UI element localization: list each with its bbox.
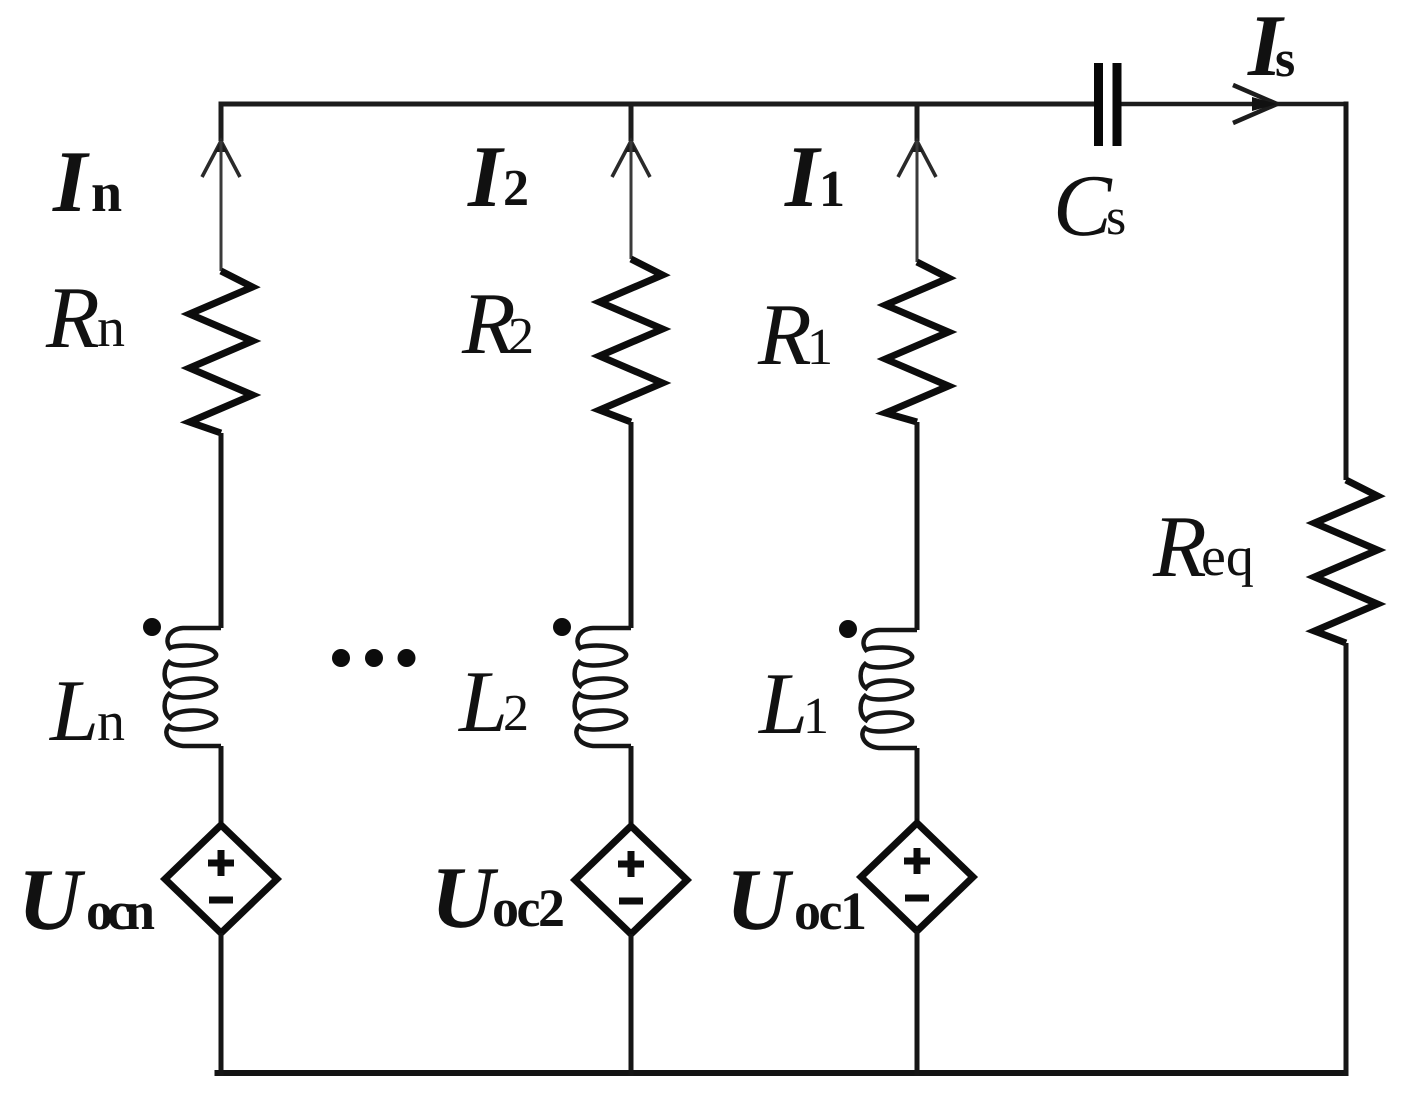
minus sign inside Uoc2 bbox=[619, 898, 643, 905]
bottom rail wire bbox=[215, 1070, 1349, 1076]
resistor Rn bbox=[190, 271, 253, 433]
svg-text:n: n bbox=[97, 297, 125, 359]
current arrow I1 (upward) bbox=[898, 140, 936, 177]
current arrow In (upward) bbox=[202, 140, 240, 177]
wire: arrow shaft down to resistor Rn bbox=[220, 141, 223, 271]
coupling dot of Ln bbox=[143, 618, 161, 636]
dependent source Uoc1 (diamond) bbox=[861, 823, 973, 931]
wire: top stub of branch 1 bbox=[915, 102, 920, 142]
minus sign inside Uoc1 bbox=[905, 895, 929, 902]
svg-text:U: U bbox=[431, 850, 499, 947]
top rail wire: left node to capacitor Cs bbox=[221, 102, 1094, 107]
wire: R1 to L1 bbox=[915, 422, 920, 630]
wire: L1 to source Uoc1 bbox=[915, 748, 920, 823]
svg-text:I: I bbox=[52, 134, 90, 231]
wire: Ln to source Uocn bbox=[219, 746, 224, 825]
wire: top-right corner down to Req bbox=[1344, 102, 1349, 481]
inductor L1 bbox=[861, 630, 917, 748]
svg-text:U: U bbox=[18, 852, 86, 949]
dependent source Uoc2 (diamond) bbox=[575, 826, 687, 934]
label Ln bbox=[48, 663, 125, 760]
svg-text:R: R bbox=[1152, 499, 1207, 596]
label I1 bbox=[784, 129, 845, 226]
wire: R2 to L2 bbox=[629, 422, 634, 628]
label R2 bbox=[461, 276, 534, 373]
svg-text:I: I bbox=[784, 129, 822, 226]
svg-text:oc2: oc2 bbox=[492, 878, 563, 938]
label Uoc1 bbox=[726, 852, 865, 949]
svg-text:n: n bbox=[97, 691, 125, 753]
capacitor Cs plates bbox=[1099, 63, 1118, 146]
svg-text:n: n bbox=[91, 162, 122, 224]
svg-text:2: 2 bbox=[508, 308, 534, 365]
wire: arrow shaft down to resistor R2 bbox=[630, 141, 633, 259]
current arrow Is (rightward on top rail) bbox=[1233, 85, 1277, 123]
label Is bbox=[1247, 0, 1295, 95]
svg-text:s: s bbox=[1106, 189, 1126, 246]
label L2 bbox=[457, 654, 529, 751]
label L1 bbox=[757, 656, 829, 753]
svg-text:oc1: oc1 bbox=[794, 881, 865, 941]
wire: Req to bottom-right corner bbox=[1344, 643, 1349, 1076]
top rail wire: capacitor Cs to top-right corner bbox=[1121, 102, 1349, 107]
ellipsis dots between branch n and branch 2 bbox=[332, 649, 416, 667]
svg-text:R: R bbox=[757, 287, 812, 384]
coupling dot of L1 bbox=[839, 620, 857, 638]
label Req bbox=[1152, 499, 1254, 596]
svg-text:C: C bbox=[1053, 158, 1113, 255]
resistor R2 bbox=[600, 259, 663, 422]
plus sign inside Uoc2 bbox=[618, 851, 644, 877]
label In bbox=[52, 134, 122, 231]
wire: Uoc2 to bottom rail bbox=[629, 934, 634, 1076]
svg-text:I: I bbox=[467, 129, 505, 226]
resistor R1 bbox=[886, 262, 949, 422]
svg-text:eq: eq bbox=[1201, 526, 1254, 588]
svg-text:L: L bbox=[757, 656, 808, 753]
svg-text:2: 2 bbox=[503, 160, 529, 217]
plus sign inside Uoc1 bbox=[904, 848, 930, 874]
inductor Ln bbox=[165, 628, 221, 746]
current arrow I2 (upward) bbox=[612, 140, 650, 177]
wire: arrow shaft down to resistor R1 bbox=[916, 141, 919, 262]
wire: top stub of branch n bbox=[219, 102, 224, 142]
label Cs bbox=[1053, 158, 1126, 255]
svg-text:L: L bbox=[457, 654, 508, 751]
dependent source Uocn (diamond) bbox=[165, 825, 277, 933]
label I2 bbox=[467, 129, 529, 226]
coupling dot of L2 bbox=[553, 618, 571, 636]
plus sign inside Uocn bbox=[208, 850, 234, 876]
wire: Uocn to bottom rail bbox=[219, 933, 224, 1076]
svg-text:1: 1 bbox=[819, 161, 845, 218]
minus sign inside Uocn bbox=[209, 897, 233, 904]
svg-text:1: 1 bbox=[807, 319, 833, 376]
label R1 bbox=[757, 287, 833, 384]
svg-text:s: s bbox=[1275, 31, 1295, 88]
wire: top stub of branch 2 bbox=[629, 102, 634, 142]
label Uocn bbox=[18, 852, 155, 949]
resistor Req bbox=[1315, 480, 1378, 643]
svg-text:U: U bbox=[726, 852, 794, 949]
label Rn bbox=[45, 270, 125, 367]
label Uoc2 bbox=[431, 850, 563, 947]
svg-text:R: R bbox=[45, 270, 100, 367]
wire: Uoc1 to bottom rail bbox=[915, 931, 920, 1076]
inductor L2 bbox=[575, 628, 631, 746]
wire: Rn to Ln bbox=[219, 433, 224, 628]
svg-text:1: 1 bbox=[803, 688, 829, 745]
svg-text:ocn: ocn bbox=[86, 881, 155, 941]
svg-text:L: L bbox=[48, 663, 99, 760]
wire: L2 to source Uoc2 bbox=[629, 746, 634, 826]
svg-text:2: 2 bbox=[503, 685, 529, 742]
